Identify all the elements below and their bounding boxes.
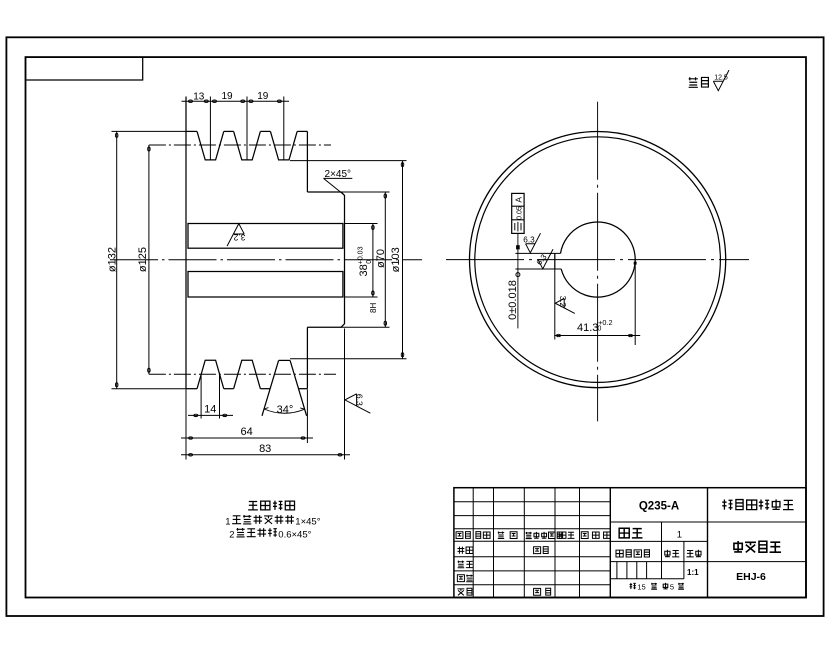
- university name: [722, 500, 732, 510]
- svg-text:41.3: 41.3: [577, 322, 598, 334]
- svg-text:0.6×45°: 0.6×45°: [278, 529, 311, 540]
- front view circle o125: [475, 137, 721, 383]
- small cells row: [616, 562, 618, 579]
- quantity: [619, 528, 629, 538]
- V-grooves top: [197, 131, 224, 160]
- row label texts: [457, 547, 464, 554]
- symmetry tolerance frame: [512, 193, 524, 233]
- svg-text:ø103: ø103: [390, 247, 402, 272]
- inner drawing frame: [26, 57, 807, 597]
- part name: big pulley: [734, 541, 742, 552]
- symmetry symbol (rotated): [514, 223, 516, 230]
- svg-text:1×45°: 1×45°: [295, 516, 320, 527]
- svg-text:3.2: 3.2: [558, 296, 567, 308]
- title block outline: [454, 488, 806, 598]
- pitch line bottom: [149, 373, 336, 375]
- svg-text:0.05: 0.05: [517, 206, 524, 220]
- svg-text:19: 19: [221, 91, 233, 102]
- bottom groove 3 enlarged 34deg detail: [279, 359, 291, 361]
- svg-text:1:1: 1:1: [687, 568, 699, 577]
- svg-text:1: 1: [677, 529, 682, 540]
- svg-text:ø125: ø125: [137, 247, 149, 272]
- svg-text:15: 15: [637, 582, 645, 591]
- roughness 3.2 in bore (rotated 180): [227, 224, 245, 247]
- rim bottom surface segments: [186, 388, 197, 390]
- dim 14: [200, 374, 202, 418]
- V-grooves bottom (mirror): [197, 360, 224, 389]
- dim 38 +0.03/0: [345, 223, 378, 225]
- svg-text:3.2: 3.2: [233, 233, 245, 243]
- svg-text:0: 0: [597, 326, 601, 333]
- tolerance leader: [517, 233, 519, 328]
- svg-text:6.3: 6.3: [523, 236, 535, 245]
- svg-text:Q235-A: Q235-A: [639, 500, 679, 512]
- dim 64: [185, 389, 187, 443]
- axis center line: [110, 259, 422, 261]
- svg-text:5: 5: [670, 582, 674, 591]
- dim o70: [341, 191, 390, 193]
- svg-text:64: 64: [240, 426, 252, 438]
- svg-text:34°: 34°: [277, 404, 294, 416]
- svg-text:EHJ-6: EHJ-6: [736, 571, 766, 583]
- svg-text:12.5: 12.5: [714, 74, 728, 81]
- svg-text:A: A: [513, 197, 523, 203]
- pulley rim left face: [185, 97, 187, 389]
- note: qi yu (others) + roughness 12.5: [689, 77, 698, 87]
- middle section lines: [610, 521, 806, 523]
- svg-text:2: 2: [229, 529, 234, 540]
- dim 41.3: [554, 269, 556, 340]
- rim top surface segments: [186, 130, 197, 132]
- roughness 3.2 bore: [555, 296, 575, 314]
- roughness 6.3 keyway top: [523, 233, 540, 253]
- keyway: [515, 252, 560, 254]
- svg-text:14: 14: [204, 403, 216, 415]
- svg-text:6.3: 6.3: [354, 394, 364, 406]
- svg-text:0±0.018: 0±0.018: [507, 280, 519, 320]
- svg-text:83: 83: [259, 443, 271, 455]
- dim o125: [148, 145, 150, 374]
- sheet count: [630, 583, 636, 589]
- svg-text:8H: 8H: [369, 303, 378, 313]
- svg-text:1: 1: [225, 516, 230, 527]
- roughness 6.3 hub end face (rotated 90): [345, 394, 370, 413]
- technical requirements title: [248, 501, 258, 509]
- dim o132: [112, 130, 187, 132]
- dim 13/19/19 extension lines: [209, 97, 211, 161]
- pitch line top: [149, 144, 331, 146]
- title block grid: left signature table: [454, 501, 610, 503]
- roughness 6.3 keyway bottom: [538, 249, 553, 269]
- rim right face: [306, 131, 308, 192]
- bore rectangles (keyway section): [188, 224, 343, 249]
- horizontal center line: [446, 259, 749, 261]
- svg-text:ø70: ø70: [375, 249, 387, 268]
- dim line 13/19/19: [182, 100, 290, 102]
- dim o103: [290, 160, 407, 162]
- svg-text:19: 19: [257, 91, 269, 102]
- stage mark / weight / scale labels: [616, 550, 623, 557]
- top-left accessory block: [26, 57, 143, 80]
- 34deg angle arc: [264, 409, 304, 413]
- bore circle o38 with keyway gap: [561, 222, 636, 297]
- vertical center line: [597, 102, 599, 422]
- header row texts: [456, 532, 463, 539]
- svg-text:13: 13: [193, 91, 205, 102]
- front view outer circle o132: [469, 132, 725, 388]
- svg-text:ø132: ø132: [107, 247, 119, 272]
- dim 83: [344, 329, 346, 460]
- hub outline with 2x45 chamfers: [307, 192, 344, 327]
